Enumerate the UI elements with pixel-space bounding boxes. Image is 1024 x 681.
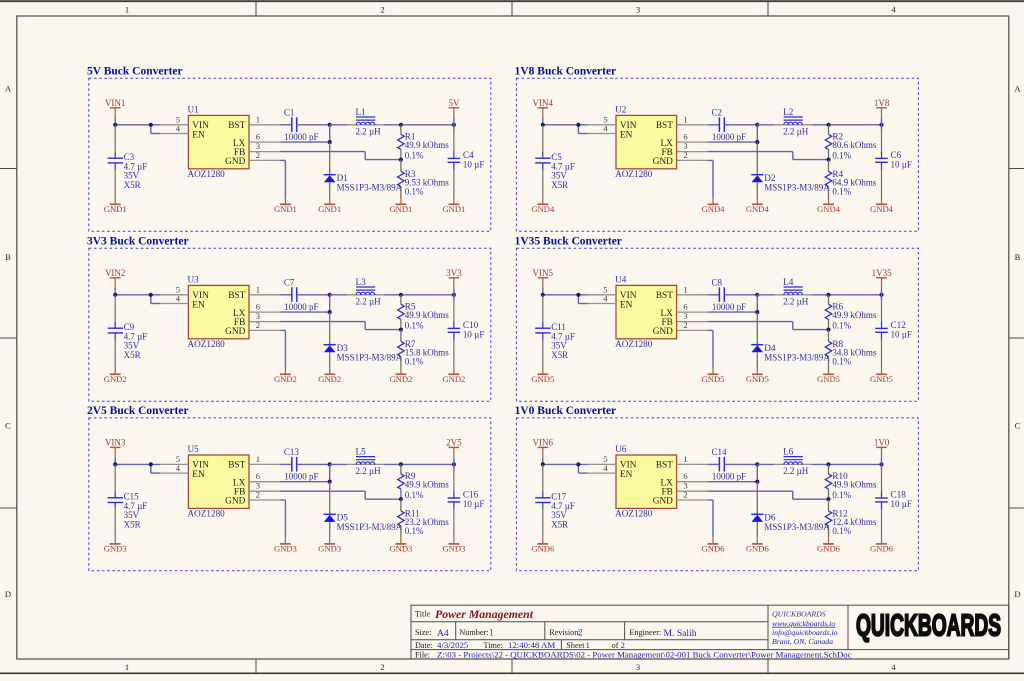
svg-text:49.9 kOhms: 49.9 kOhms [405,310,450,320]
dashed block boundary [516,78,918,231]
wire U GND pin to ground [281,500,286,537]
svg-text:L3: L3 [356,277,367,287]
inductor L3 2.2 uH [330,277,454,307]
svg-text:GND: GND [225,497,245,507]
svg-text:L5: L5 [356,446,367,456]
diode D2 MSS1P3-M3/89A [751,142,830,197]
wire FB to divider [708,491,828,499]
power port VIN3 [105,438,126,458]
junction EN tap [576,123,580,127]
junction BST/LX node [328,462,332,466]
power port VIN1 [105,98,126,118]
svg-text:0.1%: 0.1% [405,186,424,196]
ground GND1 under D1 [318,198,341,215]
title row [415,607,534,621]
svg-text:10 µF: 10 µF [891,330,912,340]
diode D6 MSS1P3-M3/89A [751,482,830,537]
svg-text:GND2: GND2 [104,374,127,384]
pin 2 (GND) [677,150,709,160]
wire LX to diode node [281,125,330,142]
svg-text:0.1%: 0.1% [832,186,851,196]
svg-text:5V: 5V [449,98,461,108]
svg-text:File:: File: [415,650,430,659]
pin 4 (EN) [588,293,616,303]
svg-text:10000 pF: 10000 pF [712,302,746,312]
svg-text:GND5: GND5 [746,374,769,384]
svg-text:1V35 Buck Converter: 1V35 Buck Converter [515,236,622,248]
IC U1 AOZ1280 [188,104,250,179]
svg-text:C7: C7 [284,277,295,287]
junction L/R node [399,123,403,127]
svg-text:2.2 µH: 2.2 µH [783,126,809,136]
pin 5 (VIN) [160,454,188,464]
svg-text:C13: C13 [284,447,300,457]
svg-text:2.2 µH: 2.2 µH [356,296,382,306]
svg-text:3V3: 3V3 [446,268,462,278]
junction BST/LX node [328,123,332,127]
svg-text:10000 pF: 10000 pF [284,472,318,482]
capacitor C2 10000 pF [708,107,757,141]
svg-text:MSS1P3-M3/89A: MSS1P3-M3/89A [764,522,830,532]
pin 4 (EN) [588,123,616,133]
junction output node [452,462,456,466]
svg-text:49.9 kOhms: 49.9 kOhms [832,310,877,320]
svg-text:AOZ1280: AOZ1280 [615,509,653,519]
power port 1V8 [874,98,890,125]
svg-text:L4: L4 [783,277,794,287]
pin 3 (FB) [677,311,709,322]
company info cell [772,610,838,647]
svg-text:0.1%: 0.1% [832,526,851,536]
pin 1 (BST) [677,454,709,465]
resistor R11 23.2 kOhms [398,499,450,537]
ground GND5 under C11 [531,368,554,385]
svg-text:3: 3 [636,5,640,15]
row ticks right [1009,169,1024,509]
pin 2 (GND) [677,320,709,330]
svg-text:10 µF: 10 µF [463,160,484,170]
svg-text:C1: C1 [284,107,295,117]
pin 5 (VIN) [588,114,616,124]
svg-text:EN: EN [620,130,633,140]
svg-text:1: 1 [256,284,260,294]
IC U5 AOZ1280 [188,444,250,519]
date row [415,640,625,650]
svg-text:VIN1: VIN1 [105,98,126,108]
svg-text:1: 1 [683,114,687,124]
junction at VIN [541,293,545,297]
svg-text:Number:: Number: [459,628,488,637]
svg-text:2: 2 [380,5,384,15]
svg-text:EN: EN [192,300,205,310]
junction LX node [328,480,332,484]
svg-text:MSS1P3-M3/89A: MSS1P3-M3/89A [337,182,403,192]
junction divider midpoint [399,497,403,501]
ground GND5 under U GND pin [702,368,725,385]
svg-text:X5R: X5R [551,180,568,190]
svg-text:10000 pF: 10000 pF [712,472,746,482]
svg-text:AOZ1280: AOZ1280 [615,169,653,179]
svg-text:GND4: GND4 [746,204,770,214]
svg-text:AOZ1280: AOZ1280 [188,509,226,519]
svg-text:2: 2 [256,490,260,500]
pin 5 (VIN) [160,284,188,294]
inductor L5 2.2 uH [330,446,454,476]
pin 4 (EN) [588,463,616,473]
diode D1 MSS1P3-M3/89A [324,142,403,197]
svg-text:4: 4 [176,463,181,473]
svg-text:2.2 µH: 2.2 µH [783,466,809,476]
pin 2 (GND) [249,490,281,500]
power port 1V0 [874,438,890,465]
capacitor C16 10 uF [448,464,485,537]
dashed block boundary [89,248,491,401]
power port 3V3 [446,268,462,295]
junction at VIN [113,293,117,297]
svg-text:C3: C3 [124,152,135,162]
svg-text:C8: C8 [712,277,723,287]
svg-text:BST: BST [228,461,245,471]
capacitor C7 10000 pF [281,277,330,312]
svg-text:6: 6 [683,471,688,481]
svg-text:6: 6 [683,132,688,142]
pin 3 (FB) [677,141,709,152]
svg-text:1V35: 1V35 [872,268,892,278]
inductor L1 2.2 uH [330,107,454,137]
junction divider midpoint [399,328,403,332]
svg-text:80.6 kOhms: 80.6 kOhms [832,140,877,150]
svg-text:1: 1 [125,662,129,672]
capacitor C3 4.7 uF [108,125,148,198]
svg-text:C12: C12 [891,320,907,330]
svg-text:GND: GND [225,157,245,167]
svg-text:2.2 µH: 2.2 µH [356,466,382,476]
pin 6 (LX) [249,471,281,482]
svg-text:GND2: GND2 [274,374,297,384]
resistor R6 49.9 kOhms [825,295,877,331]
inductor L4 2.2 uH [757,277,881,307]
power port VIN5 [533,268,554,288]
svg-text:Revision:: Revision: [549,628,580,637]
svg-text:49.9 kOhms: 49.9 kOhms [405,480,450,490]
svg-text:Z:\03 - Projects\22 - QUICKBOA: Z:\03 - Projects\22 - QUICKBOARDS\02 - P… [437,649,852,659]
power port VIN2 [105,268,126,288]
svg-text:4: 4 [176,293,181,303]
svg-text:6: 6 [256,132,261,142]
ground GND5 under R8 [817,368,840,385]
dashed block boundary [516,248,918,401]
inductor L6 2.2 uH [757,446,881,476]
svg-text:2: 2 [380,662,384,672]
junction divider midpoint [399,158,403,162]
diode D4 MSS1P3-M3/89A [751,312,830,367]
svg-text:1V0 Buck Converter: 1V0 Buck Converter [515,405,617,417]
svg-text:BST: BST [656,121,673,131]
svg-text:GND: GND [653,327,673,337]
ground GND6 under U GND pin [702,537,726,554]
svg-text:L2: L2 [783,107,794,117]
svg-text:QUICKBOARDS: QUICKBOARDS [856,608,1001,643]
svg-text:10000 pF: 10000 pF [712,132,746,142]
junction output node [879,462,883,466]
svg-text:MSS1P3-M3/89A: MSS1P3-M3/89A [764,352,830,362]
wire VIN to U [115,288,160,304]
svg-text:C14: C14 [712,447,728,457]
wire FB to divider [281,491,401,499]
pin 3 (FB) [249,311,281,322]
svg-text:U5: U5 [188,444,200,454]
resistor R9 49.9 kOhms [398,464,450,500]
ground GND4 under R4 [817,198,841,215]
capacitor C17 4.7 uF [535,464,575,537]
svg-text:GND: GND [653,497,673,507]
ground GND5 under D4 [746,368,769,385]
svg-text:MSS1P3-M3/89A: MSS1P3-M3/89A [764,182,830,192]
ground GND2 under U GND pin [274,368,297,385]
svg-text:Size:: Size: [415,628,431,637]
svg-text:2V5 Buck Converter: 2V5 Buck Converter [87,405,189,417]
svg-text:AOZ1280: AOZ1280 [188,339,226,349]
junction L/R node [826,123,830,127]
power port 5V [449,98,461,125]
svg-text:BST: BST [656,461,673,471]
svg-text:1: 1 [683,284,687,294]
svg-text:GND: GND [225,327,245,337]
svg-text:GND2: GND2 [389,374,412,384]
pin 6 (LX) [677,132,709,143]
svg-text:U6: U6 [615,444,627,454]
wire FB to divider [708,152,828,160]
ground GND1 under U GND pin [274,198,297,215]
wire U GND pin to ground [708,500,713,537]
svg-text:GND2: GND2 [442,374,465,384]
svg-text:C6: C6 [891,150,902,160]
IC U6 AOZ1280 [615,444,677,519]
svg-text:4: 4 [603,123,608,133]
svg-text:C17: C17 [551,491,567,501]
junction L/R node [826,462,830,466]
wire LX to diode node [281,464,330,481]
wire U GND pin to ground [281,160,286,197]
svg-text:X5R: X5R [124,520,141,530]
pin 1 (BST) [249,284,281,295]
ground GND2 under C10 [442,368,465,385]
svg-text:QUICKBOARDS: QUICKBOARDS [772,610,826,619]
IC U4 AOZ1280 [615,274,677,349]
junction LX node [755,310,759,314]
wire FB to divider [281,152,401,160]
svg-text:A: A [1014,84,1021,94]
svg-text:0.1%: 0.1% [405,356,424,366]
capacitor C8 10000 pF [708,277,757,312]
pin 4 (EN) [160,293,188,303]
column numbers top [125,5,897,15]
row letters left [5,84,12,600]
svg-text:BST: BST [228,121,245,131]
svg-text:EN: EN [620,300,633,310]
dashed block boundary [89,418,491,571]
svg-text:C18: C18 [891,490,907,500]
svg-text:Brant, ON, Canada: Brant, ON, Canada [772,637,833,646]
capacitor C6 10 uF [875,125,912,198]
svg-text:0.1%: 0.1% [405,321,424,331]
svg-text:3: 3 [636,662,640,672]
svg-text:49.9 kOhms: 49.9 kOhms [405,140,450,150]
svg-text:1: 1 [489,628,494,638]
svg-text:BST: BST [656,291,673,301]
size row [415,628,697,639]
svg-text:U2: U2 [615,104,627,114]
power port VIN6 [533,438,554,458]
junction output node [879,293,883,297]
wire U GND pin to ground [708,330,713,367]
svg-text:10 µF: 10 µF [891,160,912,170]
wire VIN to U [115,458,160,474]
svg-text:1V8: 1V8 [874,98,890,108]
junction L/R node [399,293,403,297]
wire LX to diode node [708,295,757,312]
ground GND1 under R3 [389,198,412,215]
junction L/R node [826,293,830,297]
svg-text:GND6: GND6 [746,544,770,554]
svg-text:X5R: X5R [124,180,141,190]
svg-text:D: D [1014,589,1020,599]
wire VIN to U [543,288,588,304]
svg-text:GND1: GND1 [104,204,127,214]
svg-text:GND1: GND1 [274,204,297,214]
svg-text:C15: C15 [124,491,140,501]
svg-text:L1: L1 [356,107,367,117]
svg-text:D: D [5,589,11,599]
pin 1 (BST) [677,114,709,125]
power port 2V5 [446,438,462,465]
svg-text:1: 1 [683,454,687,464]
pin 5 (VIN) [160,114,188,124]
svg-text:B: B [5,252,11,262]
wire VIN to U [543,118,588,134]
junction divider midpoint [826,328,830,332]
svg-text:0.1%: 0.1% [405,526,424,536]
svg-text:EN: EN [192,470,205,480]
svg-text:10000 pF: 10000 pF [284,302,318,312]
svg-text:GND3: GND3 [442,544,465,554]
wire LX to diode node [708,125,757,142]
ground GND3 under R11 [389,537,412,554]
svg-text:0.1%: 0.1% [832,490,851,500]
resistor R3 9.53 kOhms [398,160,450,198]
svg-text:VIN2: VIN2 [105,268,126,278]
svg-text:MSS1P3-M3/89A: MSS1P3-M3/89A [337,352,403,362]
junction divider midpoint [826,158,830,162]
pin 3 (FB) [249,141,281,152]
svg-text:10000 pF: 10000 pF [284,132,318,142]
resistor R1 49.9 kOhms [398,125,450,161]
svg-text:GND4: GND4 [817,204,841,214]
svg-text:GND5: GND5 [531,374,554,384]
title block [411,605,1009,659]
junction BST/LX node [755,293,759,297]
pin 6 (LX) [249,132,281,143]
svg-text:U4: U4 [615,274,627,284]
ground GND2 under R7 [389,368,412,385]
svg-text:GND1: GND1 [389,204,412,214]
svg-text:GND6: GND6 [702,544,726,554]
svg-text:0.1%: 0.1% [405,151,424,161]
svg-text:A4: A4 [437,628,449,639]
ground GND4 under D2 [746,198,770,215]
junction EN tap [576,293,580,297]
ground GND3 under C16 [442,537,465,554]
resistor R5 49.9 kOhms [398,295,450,331]
column ticks top [256,1,768,16]
svg-text:VIN6: VIN6 [533,438,554,448]
junction EN tap [149,293,153,297]
svg-text:BST: BST [228,291,245,301]
capacitor C13 10000 pF [281,447,330,482]
svg-text:EN: EN [620,470,633,480]
ground GND4 under C6 [870,198,894,215]
svg-text:0.1%: 0.1% [832,151,851,161]
svg-text:4: 4 [176,123,181,133]
svg-text:GND1: GND1 [318,204,341,214]
capacitor C11 4.7 uF [535,295,575,368]
capacitor C4 10 uF [448,125,485,198]
pin 1 (BST) [249,454,281,465]
junction at VIN [541,462,545,466]
ground GND1 under C3 [104,198,127,215]
svg-text:VIN5: VIN5 [533,268,554,278]
ground GND6 under C17 [531,537,555,554]
svg-text:GND3: GND3 [318,544,341,554]
svg-text:U1: U1 [188,104,200,114]
wire U GND pin to ground [708,160,713,197]
diode D3 MSS1P3-M3/89A [324,312,403,367]
svg-text:0.1%: 0.1% [405,490,424,500]
ground GND4 under C5 [531,198,555,215]
junction divider midpoint [826,497,830,501]
svg-text:Date:: Date: [415,641,433,650]
pin 6 (LX) [249,302,281,313]
svg-text:C10: C10 [463,320,479,330]
pin 4 (EN) [160,463,188,473]
svg-text:1V0: 1V0 [874,438,890,448]
svg-text:6: 6 [256,302,261,312]
svg-text:4: 4 [891,662,896,672]
pin 3 (FB) [677,481,709,492]
IC U3 AOZ1280 [188,274,250,349]
capacitor C18 10 uF [875,464,912,537]
svg-text:2: 2 [256,150,260,160]
svg-text:GND6: GND6 [817,544,841,554]
svg-text:U3: U3 [188,274,200,284]
junction at VIN [113,123,117,127]
svg-text:2: 2 [578,628,583,638]
ground GND2 under D3 [318,368,341,385]
junction LX node [755,140,759,144]
capacitor C9 4.7 uF [108,295,148,368]
inductor L2 2.2 uH [757,107,881,137]
svg-text:2.2 µH: 2.2 µH [783,296,809,306]
svg-text:GND6: GND6 [531,544,555,554]
capacitor C15 4.7 uF [108,464,148,537]
row letters right [1014,84,1021,600]
svg-text:GND5: GND5 [870,374,893,384]
svg-text:C: C [1015,421,1021,431]
dashed block boundary [516,418,918,571]
wire LX to diode node [708,464,757,481]
svg-text:AOZ1280: AOZ1280 [188,169,226,179]
svg-text:GND5: GND5 [817,374,840,384]
